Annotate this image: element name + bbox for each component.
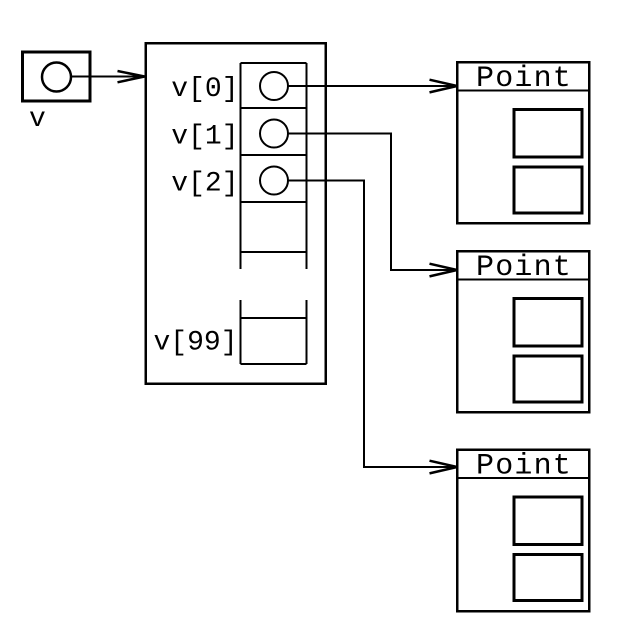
svg-text:v[99]: v[99] [154,328,238,359]
wire v[0] to Point 1 [288,85,456,87]
Point box 1 [457,62,589,223]
circle v[1] [260,120,288,148]
arrowhead v to array [118,71,145,82]
svg-text:Point: Point [476,62,572,96]
svg-text:v[1]: v[1] [171,122,238,153]
pointer column left vertical [240,63,242,364]
svg-text:v[2]: v[2] [171,169,238,200]
svg-text:Point: Point [476,251,572,285]
svg-text:Point: Point [476,450,572,484]
arrowhead to Point 2 [430,264,458,277]
circle v[2] [260,167,288,195]
circle in v box [42,63,71,92]
Point box 3 [457,450,589,612]
svg-text:v: v [29,104,46,135]
svg-text:v[0]: v[0] [171,74,238,105]
arrowhead to Point 3 [430,461,458,474]
wire v[2] to Point 3 [288,181,456,468]
wire v to array [71,76,144,78]
column dividers [241,63,307,364]
wire v[1] to Point 2 [288,134,456,271]
pointer column right vertical [306,63,308,364]
circle v[0] [260,72,288,100]
v box [23,52,91,101]
array outer box [146,43,326,384]
arrowhead to Point 1 [430,80,458,93]
Point box 2 [457,251,589,412]
